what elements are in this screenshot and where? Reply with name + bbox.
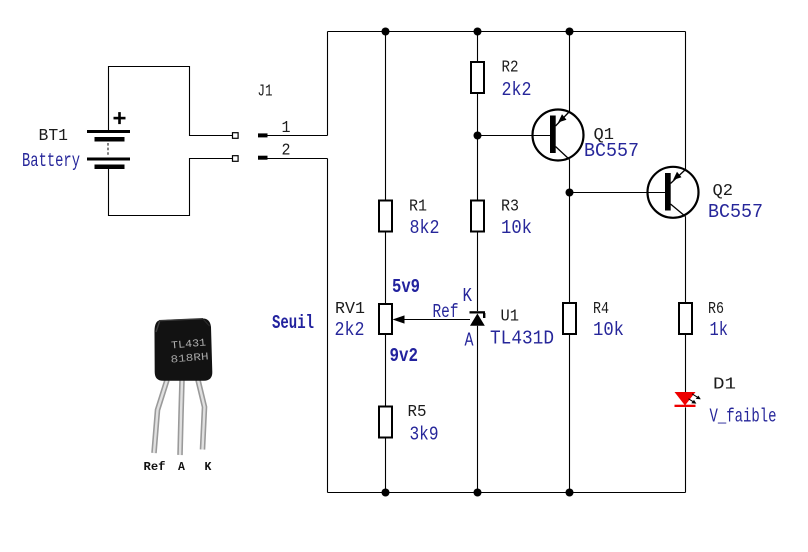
svg-text:V_faible: V_faible [710, 406, 777, 428]
svg-text:R2: R2 [502, 59, 519, 78]
transistor Q2 [648, 167, 699, 218]
transistor Q1 [533, 110, 584, 161]
svg-text:BT1: BT1 [39, 127, 69, 146]
wire R2 to R3 [477, 93, 479, 200]
svg-text:K: K [205, 461, 212, 474]
wire U1 anode to bottom rail [477, 326, 479, 493]
junction top rail at R2 column [474, 28, 482, 36]
svg-text:R4: R4 [593, 300, 609, 319]
svg-text:A: A [465, 330, 474, 352]
svg-text:10k: 10k [593, 319, 624, 341]
wire left riser up [327, 32, 329, 136]
shunt regulator U1 TL431 [470, 311, 486, 326]
wire Ref RV1 wiper to U1 [404, 319, 470, 321]
svg-text:RV1: RV1 [335, 300, 365, 319]
svg-text:1k: 1k [710, 319, 729, 341]
svg-text:Battery: Battery [22, 150, 80, 172]
wire top rail corner to Q2 emitter [685, 32, 687, 170]
wire J1 pin1 to left riser [268, 135, 328, 137]
svg-text:J1: J1 [258, 83, 273, 102]
wire Q1 collector down to R4 [569, 160, 571, 303]
svg-text:9v2: 9v2 [390, 345, 419, 367]
wire Q1 base [478, 135, 551, 137]
junction bottom rail at R4 column [566, 489, 574, 497]
svg-text:BC557: BC557 [584, 140, 639, 162]
wire LED to bottom rail [685, 407, 687, 492]
wire Q2 collector to R6 [685, 217, 687, 303]
svg-text:R1: R1 [409, 198, 427, 217]
resistor R5 [379, 407, 392, 438]
wire J1 pin2 to left column [268, 158, 328, 160]
wire left column down [327, 159, 329, 493]
resistor R6 [679, 303, 692, 334]
wire R4 to bottom rail [569, 334, 571, 493]
wire top rail to R2 [477, 32, 479, 62]
svg-text:8k2: 8k2 [410, 217, 440, 239]
junction Q2 base node [566, 189, 574, 197]
resistor R1 [379, 201, 392, 232]
svg-text:R3: R3 [501, 198, 519, 217]
wire Q2 base [570, 192, 666, 194]
svg-text:2: 2 [282, 142, 291, 161]
svg-text:3k9: 3k9 [410, 424, 439, 446]
resistor R3 [471, 201, 484, 232]
junction top rail at Q1 column [566, 28, 574, 36]
junction Q1 base node [474, 132, 482, 140]
wire R6 to LED [685, 334, 687, 392]
svg-text:Q2: Q2 [713, 182, 734, 201]
svg-text:D1: D1 [713, 376, 736, 395]
svg-text:K: K [463, 285, 473, 307]
svg-text:R5: R5 [408, 403, 427, 422]
LED D1 [675, 392, 701, 407]
wire bottom rail [328, 492, 686, 494]
junction bottom rail at R5 column [382, 489, 390, 497]
svg-text:2k2: 2k2 [502, 79, 532, 101]
svg-text:A: A [178, 461, 185, 474]
resistor R2 [471, 62, 484, 93]
battery BT1 [87, 112, 130, 169]
svg-text:TL431D: TL431D [490, 328, 554, 350]
svg-text:R6: R6 [708, 300, 724, 319]
svg-text:BC557: BC557 [708, 201, 763, 223]
svg-text:2k2: 2k2 [335, 319, 365, 341]
wire battery positive loop [109, 67, 233, 136]
svg-text:Ref: Ref [144, 461, 166, 474]
junction top rail at R1 column [382, 28, 390, 36]
wire top rail to R1 [385, 32, 387, 200]
svg-text:10k: 10k [501, 217, 532, 239]
junction bottom rail at U1 column [474, 489, 482, 497]
resistor R4 [563, 303, 576, 334]
wire battery negative loop [109, 159, 233, 216]
wire R3 to U1 [477, 232, 479, 312]
potentiometer RV1 [379, 304, 405, 334]
wire top rail to Q1 emitter [569, 32, 571, 112]
wire RV1 to R5 [385, 335, 387, 406]
connector J1 [233, 133, 268, 162]
svg-text:U1: U1 [501, 308, 520, 327]
wire R1 to RV1 [385, 233, 387, 304]
svg-text:Seuil: Seuil [272, 312, 314, 334]
TO-92 package photo TL431 [154, 319, 212, 456]
svg-text:5v9: 5v9 [392, 276, 420, 298]
wire top rail [328, 31, 686, 33]
wire R5 to bottom rail [385, 439, 387, 493]
